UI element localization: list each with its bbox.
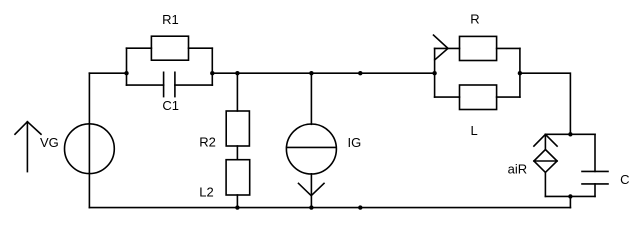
svg-text:aiR: aiR [508, 161, 528, 176]
wire VG trunk [88, 73, 90, 207]
wire R2-L2 link [236, 146, 238, 160]
node A bottom bus [358, 205, 362, 209]
resistor R2 [226, 111, 249, 146]
wire right branch top horizontal [545, 133, 595, 135]
arrow IG current direction [299, 174, 325, 208]
node junction R2 top [235, 71, 239, 75]
wire aiR bottom lead [544, 172, 546, 196]
svg-text:IG: IG [348, 135, 362, 150]
arrow VG reference direction [15, 122, 41, 172]
capacitor C [582, 171, 608, 184]
svg-text:L2: L2 [199, 184, 213, 199]
wire R2 top lead [236, 73, 238, 111]
wire bottom branch horizontal [545, 195, 595, 197]
node junction right of R1C1 [210, 71, 214, 75]
svg-text:R1: R1 [162, 12, 179, 27]
wire right branch vertical [211, 48, 213, 85]
node junction right branch top [568, 132, 572, 136]
wire IG top lead [310, 73, 312, 124]
voltage source VG [65, 124, 115, 174]
wire RL right vertical [519, 48, 521, 97]
controlled source aiR [534, 150, 557, 173]
wire top bus right segment [520, 73, 571, 134]
svg-text:VG: VG [40, 135, 59, 150]
node junction bottom branch [568, 194, 572, 198]
svg-text:L: L [471, 123, 478, 138]
wire C top lead [594, 134, 596, 171]
wire L2 bottom lead [236, 195, 238, 208]
wire C bottom lead [594, 184, 596, 197]
node junction RL right [518, 71, 522, 75]
wire aiR top lead [544, 134, 546, 149]
wire bottom bus [89, 207, 570, 209]
capacitor C1 [127, 72, 213, 96]
svg-text:C1: C1 [162, 98, 179, 113]
node junction RL left [432, 71, 436, 75]
node junction IG top [309, 71, 313, 75]
node A top bus [358, 71, 362, 75]
svg-text:C: C [620, 172, 629, 187]
resistor R [435, 36, 520, 60]
wire RL left vertical [434, 48, 436, 97]
wire top bus left segment [89, 72, 126, 74]
wire top bus middle segment [212, 72, 434, 74]
wire left branch vertical [126, 48, 128, 85]
inductor L2 [226, 160, 250, 195]
current source IG [286, 124, 336, 174]
arrow aiR source direction [534, 134, 557, 146]
arrow controlling current iR [434, 35, 449, 60]
resistor R1 [127, 36, 213, 60]
inductor L [435, 85, 520, 110]
wire bottom bus riser [569, 196, 571, 207]
node junction IG bottom [309, 205, 313, 209]
svg-text:R2: R2 [199, 134, 216, 149]
node junction left of R1C1 [124, 71, 128, 75]
node junction L2 bottom [235, 205, 239, 209]
svg-text:R: R [470, 12, 479, 27]
